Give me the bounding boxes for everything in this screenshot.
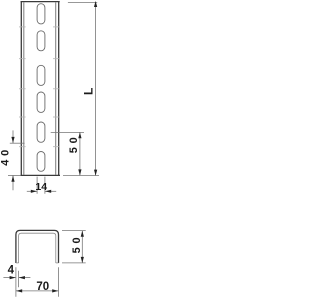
slot 2 — [37, 31, 45, 51]
slot 1 — [37, 4, 45, 24]
dimension 40 extension line — [10, 142, 25, 144]
break tick right 4 — [53, 116, 60, 118]
dimension L arrow top — [94, 1, 97, 7]
svg-text:14: 14 — [35, 181, 47, 193]
dimension 50 (section) extension line top — [62, 230, 86, 232]
dimension 50 (section) arrow bottom — [81, 257, 84, 263]
dimension 50 (section) line — [81, 231, 83, 263]
slot 3 — [37, 65, 45, 85]
dimension 40 arrow up — [11, 176, 14, 182]
dimension 50 (section) arrow top — [81, 231, 84, 237]
break tick right 5 — [53, 146, 60, 148]
rail bottom edge — [21, 174, 60, 176]
dimension 70 line — [16, 290, 59, 292]
dimension 40 line lower tail — [12, 175, 14, 190]
dimension 4 arrow left — [10, 276, 16, 279]
dimension 40 line upper tail — [12, 130, 14, 143]
break tick right 1 — [53, 26, 60, 28]
svg-text:50: 50 — [68, 133, 80, 153]
dimension 4 extension line (inner wall) — [18, 271, 20, 288]
dimension 14 extension line left — [36, 177, 38, 194]
dimension L arrow bottom — [94, 170, 97, 176]
dimension 4 line right tail — [19, 277, 31, 279]
svg-text:70: 70 — [36, 281, 49, 293]
break tick left 5 — [19, 146, 26, 148]
dimension 14 arrow left — [31, 190, 37, 193]
rail top edge — [21, 1, 60, 3]
dimension 50 extension line (slot center) — [51, 131, 84, 133]
dimension 70 arrow left — [16, 289, 22, 292]
cross-section outer contour — [16, 230, 59, 263]
rail right outer edge — [58, 1, 60, 175]
dimension 40 arrow down — [11, 137, 14, 143]
slot 5 — [37, 122, 45, 142]
dimension 50 arrow top — [78, 132, 81, 138]
slot 6 — [37, 152, 45, 172]
break tick right 2 — [53, 58, 60, 60]
rail left outer edge — [20, 1, 22, 175]
dimension 4 arrow right — [19, 276, 25, 279]
dimension 14 arrow right — [45, 190, 51, 193]
svg-text:40: 40 — [0, 146, 11, 166]
slot 4 — [37, 92, 45, 112]
dimension 70 arrow right — [52, 289, 58, 292]
svg-text:4: 4 — [8, 265, 15, 277]
cross-section inner contour — [19, 233, 56, 263]
dimension 50 (section) extension line bottom — [62, 262, 86, 264]
dimension 14 line left tail — [27, 190, 37, 192]
break tick left 1 — [19, 26, 26, 28]
dimension 40 bottom extension line left — [8, 174, 21, 176]
dimension L / 50 extension line bottom right — [63, 175, 99, 177]
dimension 14 extension line right — [44, 177, 46, 194]
svg-text:50: 50 — [71, 234, 83, 254]
dimension L extension line top — [68, 1, 97, 3]
break tick left 2 — [19, 58, 26, 60]
break tick left 4 — [19, 116, 26, 118]
dimension 50 arrow bottom — [78, 169, 81, 175]
dimension 70 extension line left — [15, 267, 17, 297]
dimension 50 line — [79, 132, 81, 175]
dimension 4 line left tail — [3, 277, 16, 279]
cross-section right leg end cap — [56, 262, 59, 264]
rail left inner fold line — [23, 2, 25, 175]
rail right inner fold line — [55, 2, 57, 175]
break tick left 3 — [19, 88, 26, 90]
svg-text:L: L — [82, 88, 96, 95]
dimension 14 line right tail — [45, 190, 56, 192]
break tick right 3 — [53, 88, 60, 90]
dimension 70 extension line right — [58, 267, 60, 297]
cross-section left leg end cap — [16, 262, 19, 264]
dimension L line — [95, 2, 97, 175]
